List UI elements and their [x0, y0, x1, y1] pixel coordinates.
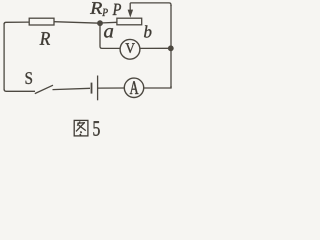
wire bottom-left to switch — [4, 89, 35, 91]
label a — [104, 28, 113, 37]
ammeter A — [124, 78, 143, 97]
junction dot right rail — [168, 45, 174, 51]
battery cell — [92, 76, 98, 101]
label S — [26, 72, 32, 84]
wire resistor to node a — [54, 22, 100, 24]
wire node a to potentiometer — [100, 21, 117, 24]
wiper arrow P — [128, 3, 134, 18]
wire left rail vertical — [3, 23, 5, 90]
label R — [40, 32, 50, 45]
wire top-left horizontal — [4, 22, 29, 24]
wire battery to ammeter — [98, 87, 124, 89]
wire ammeter to right rail bottom — [144, 86, 171, 88]
resistor R — [29, 18, 54, 25]
label R_P — [90, 2, 108, 16]
wire node a down to voltmeter — [100, 23, 120, 48]
wire switch to battery — [53, 88, 91, 89]
potentiometer R_P body — [117, 18, 142, 25]
wire right rail vertical — [170, 5, 172, 88]
voltmeter V — [120, 39, 140, 59]
switch S blade — [35, 85, 53, 93]
wire wiper to right rail (top) — [130, 3, 171, 6]
node a junction dot — [97, 20, 103, 26]
label b — [144, 25, 151, 37]
caption 图 5 — [74, 120, 88, 135]
wire voltmeter to right rail — [140, 47, 171, 49]
label P — [113, 4, 122, 15]
